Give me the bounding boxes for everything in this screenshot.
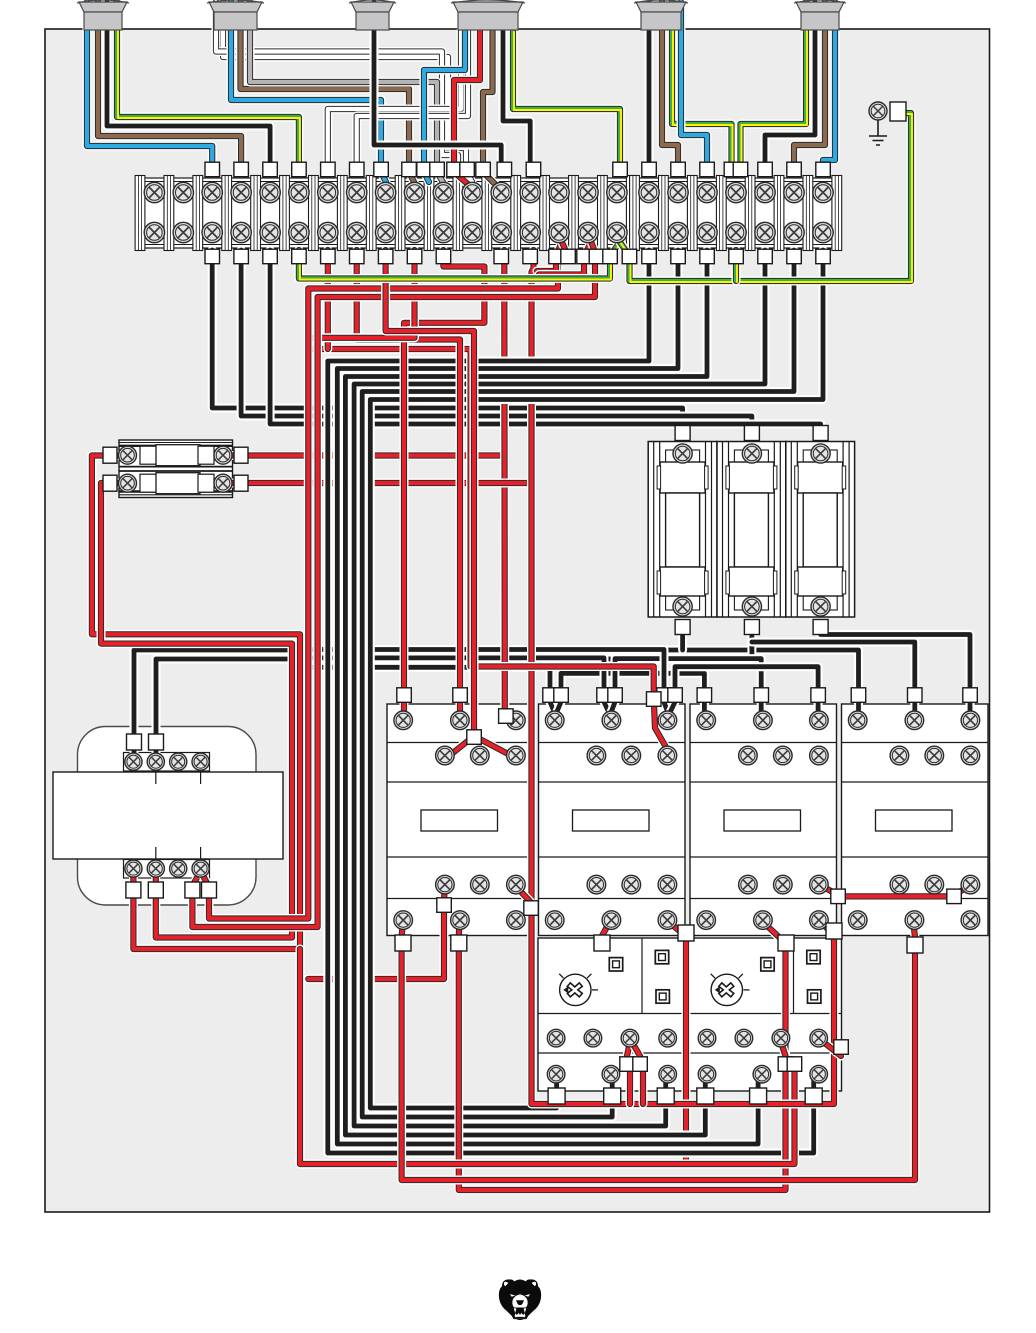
wire F1.1 out tap: [231, 451, 505, 460]
wire F2.1 drop: [678, 628, 687, 650]
wire relay F3 96b drop: [639, 1064, 648, 1104]
screw F4 95-98 row: [810, 1029, 828, 1047]
cable gland PG6: [794, 0, 846, 30]
contactor K1: [387, 704, 534, 936]
screw X1:23 lower: [784, 222, 804, 242]
wire X1:10 drop to rail: [309, 250, 415, 338]
wire trafo sec2 stub: [151, 871, 160, 886]
screw K1 row2: [507, 746, 526, 765]
screw X1:6 upper: [289, 182, 309, 202]
screw K3 top row: [697, 711, 716, 730]
ferrule T1 prim in 2: [149, 734, 164, 750]
wire cable W2 white2: [216, 2, 458, 167]
screw T1 sec: [125, 860, 142, 877]
wire K2 L2 out to K3 L2: [615, 659, 761, 713]
screw K2 bottom row: [545, 911, 564, 930]
ferrule X1 bottom: [577, 249, 592, 264]
screw X1:3 upper: [202, 182, 222, 202]
cable gland PG3: [349, 0, 396, 30]
ferrule X1:9 top: [374, 162, 389, 177]
ferrule K3 24: [826, 923, 842, 939]
ferrule F2 bottom: [675, 620, 690, 635]
wire cable W4 brown to X1:13: [483, 31, 497, 186]
ferrule X1:3 top: [205, 162, 220, 177]
wire 24V rail to relay F4 96b: [300, 949, 795, 1164]
wire cable W5 blue to X1:20: [681, 2, 707, 172]
wire X1:16 left leg: [539, 258, 584, 275]
screw X1:5 lower: [260, 222, 280, 242]
screw X1:16 lower: [578, 222, 598, 242]
screw F3 output row: [602, 1065, 620, 1083]
screw K1 bottom row: [451, 911, 470, 930]
wire cable W3 black to X1:13: [374, 2, 501, 172]
screw K1 row3: [436, 875, 455, 894]
wire K2 L3 out stub: [669, 702, 675, 715]
screw T1 prim: [170, 753, 187, 770]
ferrule X1 bottom: [378, 249, 393, 264]
wire F2.2 line to K4 L2: [752, 642, 915, 713]
wire cable W4 white2 to X1:8: [357, 31, 468, 172]
screw K3 row2: [810, 746, 829, 765]
screw K4 row2: [961, 746, 980, 765]
screw K1 row2: [471, 746, 490, 765]
wire X1:17 stub b: [620, 242, 631, 257]
screw F2 bottom: [673, 597, 692, 616]
wire cable W6 gnye to X1:21: [741, 2, 808, 173]
screw K3 top row: [754, 711, 773, 730]
wire cable W4 black to X1:14: [503, 31, 530, 172]
screw X1:7 upper: [318, 182, 338, 202]
screw T1 prim: [147, 753, 164, 770]
ferrule T1 sec 1: [126, 882, 141, 898]
screw X1:7 lower: [318, 222, 338, 242]
ferrule X1:21 top a: [724, 162, 739, 177]
screw X1:23 upper: [784, 182, 804, 202]
screw F2 bottom: [742, 597, 761, 616]
ferrule X1:18 top: [642, 162, 657, 177]
wire cable W6 brown to X1:23: [794, 2, 825, 172]
screw K3 bottom row: [697, 911, 716, 930]
screw X1:1 lower: [144, 222, 164, 242]
ferrule X1 top cluster: [526, 162, 541, 177]
screw K4 top row: [961, 711, 980, 730]
ferrule T1 prim in 1: [127, 734, 142, 750]
ferrule K3 23: [831, 889, 846, 904]
screw K1 bottom row: [507, 911, 526, 930]
fuse holder F1 (2-pole, horizontal): [119, 440, 233, 498]
ferrule X1 bottom: [407, 249, 422, 264]
ferrule K3 top: [697, 688, 712, 703]
ferrule X1:19 top: [671, 162, 686, 177]
ferrule X1 bottom: [561, 249, 576, 264]
screw K3 row3: [810, 875, 829, 894]
screw T1 sec: [147, 860, 164, 877]
wire X1:15 left leg: [537, 258, 556, 271]
ferrule X1 bottom: [234, 249, 249, 264]
screw K1 top row: [451, 711, 470, 730]
wire K1 A2 chain to relay F4: [459, 921, 786, 1190]
screw X1:6 lower: [289, 222, 309, 242]
wire cable W2 grey to X1:11: [250, 2, 444, 184]
wire cable W1 gnye to X1:6: [117, 2, 300, 173]
wire relay F3 angle b: [632, 1042, 640, 1056]
contactor K4: [842, 704, 989, 936]
overload relay F4: [690, 938, 842, 1091]
wire trafo sec4 stub a: [194, 871, 201, 884]
ferrule X1 top cluster: [417, 162, 432, 177]
wire X1:3 to fuse F2.1: [212, 250, 682, 432]
screw X1:22 upper: [755, 182, 775, 202]
ferrule F2 top: [744, 426, 759, 441]
screw K1 row2: [436, 746, 455, 765]
wire rail L1 into K2: [296, 667, 550, 700]
screw K1 top row: [507, 711, 526, 730]
screw X1:1 upper: [144, 182, 164, 202]
wire cable W1 black to X1:5: [107, 2, 270, 172]
screw K4 top row: [905, 711, 924, 730]
ferrule F2 bottom: [744, 620, 759, 635]
screw T1 sec: [192, 860, 209, 877]
screw X1:22 lower: [755, 222, 775, 242]
wire F2.1 line: transformer prim1 / K4 L1: [134, 650, 859, 757]
overload relay F3: [538, 938, 684, 1091]
ferrule X1 bottom: [292, 249, 307, 264]
screw F4 output row: [698, 1065, 716, 1083]
wire cable W2 blue to X1:9: [231, 2, 386, 182]
ferrule F1 left: [103, 475, 117, 491]
wire cable W5 brown to X1:19: [662, 2, 678, 172]
screw K4 bottom row: [961, 911, 980, 930]
screw F3 95-98 row: [621, 1029, 639, 1047]
screw X1:19 upper: [668, 182, 688, 202]
screw K3 row3: [774, 875, 793, 894]
screw X1:3 lower: [202, 222, 222, 242]
screw X1:21 upper: [726, 182, 746, 202]
wire F2.2 drop: [747, 628, 756, 659]
screw K1 row3: [507, 875, 526, 894]
screw K4 row2: [890, 746, 909, 765]
screw X1:19 lower: [668, 222, 688, 242]
wire K2 L3 in stub: [664, 702, 669, 715]
screw K4 row3: [890, 875, 909, 894]
wire cable W6 blue to X1:24: [823, 2, 835, 172]
screw K2 row3: [622, 875, 641, 894]
screw X1:10 lower: [404, 222, 424, 242]
ferrule X1 bottom: [671, 249, 686, 264]
ferrule X1 top cluster: [460, 162, 475, 177]
ferrule K4 top: [963, 688, 978, 703]
ferrule X1 bottom: [758, 249, 773, 264]
ferrule F4 out: [750, 1088, 767, 1104]
wire trafo sec4 to X1:15: [209, 252, 562, 919]
screw X1:24 lower: [813, 222, 833, 242]
ferrule K4 top: [908, 688, 923, 703]
wire rail L2 into K2: [296, 658, 604, 700]
PE earth bolt: [869, 102, 906, 145]
wire X1:19 to relay F4 T2: [337, 250, 758, 1144]
ferrule K1 L2 top: [453, 688, 468, 703]
ferrule X1 bottom: [350, 249, 365, 264]
screw F1.2 left: [119, 474, 137, 492]
wire K3 24 rail to K1 23: [532, 912, 835, 1104]
screw X1:2 upper: [173, 182, 193, 202]
wire angle into K1 L3: [505, 714, 515, 722]
ferrule F3 96 a: [620, 1057, 635, 1072]
screw K3 row2: [774, 746, 793, 765]
wire trafo sec3 to X1:16: [192, 252, 595, 927]
ferrule X1:17 top: [613, 162, 628, 177]
ferrule K2 top: [597, 688, 612, 703]
wire X1:15 stub b: [562, 242, 568, 256]
wire cable W1 blue to X1:3: [87, 2, 212, 172]
wire K2 L1 out stub: [556, 702, 562, 715]
screw F2 top: [742, 444, 761, 463]
cable gland PG2: [207, 0, 264, 30]
ferrule F4 96 a: [778, 1057, 793, 1072]
screw F3 output row: [659, 1065, 677, 1083]
screw X1:8 lower: [347, 222, 367, 242]
wire X1:16 stub a: [584, 242, 591, 256]
screw K2 top row: [545, 711, 564, 730]
screw K4 row3: [925, 875, 944, 894]
ferrule X1:21 top b: [733, 162, 748, 177]
ferrule F3 out: [604, 1088, 621, 1104]
screw X1:21 lower: [726, 222, 746, 242]
ferrule K4 top: [851, 688, 866, 703]
wire X1:24 to relay F3 T1: [370, 250, 823, 1108]
ferrule F2 top: [675, 426, 690, 441]
wire K2 A2 stub: [602, 921, 610, 948]
ferrule X1 bottom: [205, 249, 220, 264]
screw K4 bottom row: [905, 911, 924, 930]
ferrule X1 bottom: [816, 249, 831, 264]
screw K2 bottom row: [602, 911, 621, 930]
ferrule F3 out: [657, 1088, 674, 1104]
screw K2 top row: [658, 711, 677, 730]
ferrule T1 sec 3: [185, 882, 200, 898]
screw X1:24 upper: [813, 182, 833, 202]
ferrule X1:4 top: [234, 162, 249, 177]
wire K4 A2 to K1 A1 loop: [402, 921, 915, 1180]
screw K2 row3: [658, 875, 677, 894]
wire K2 L1 out to K3 L1: [561, 673, 704, 713]
screw X1:14 upper: [520, 182, 540, 202]
wire relay F3 96a drop: [626, 1064, 635, 1104]
screw K4 row2: [925, 746, 944, 765]
wire F1.1 loop to trafo sec 1: [92, 456, 300, 950]
ferrule X1 top cluster: [447, 162, 462, 177]
ferrule X1 bottom: [523, 249, 538, 264]
screw X1:2 lower: [173, 222, 193, 242]
ferrule K2 top: [543, 688, 558, 703]
wire K3 23 to K4 23 link: [838, 892, 954, 901]
screw X1:12 lower: [462, 222, 482, 242]
ferrule X1 bottom: [729, 249, 744, 264]
ferrule K2 A2 b: [678, 925, 694, 941]
ferrule relay F4 98: [834, 1040, 849, 1055]
screw K3 top row: [810, 711, 829, 730]
screw X1:15 lower: [549, 222, 569, 242]
ferrule X1 bottom: [787, 249, 802, 264]
screw F2 bottom: [811, 597, 830, 616]
wire X1:13 to K1 L3: [500, 250, 510, 716]
wire K1 aux to 24V rail: [308, 886, 445, 979]
wire cable W2 white to X1:12: [223, 2, 472, 182]
wire X1:11 to K1 L1: [404, 250, 484, 714]
wire trafo sec1 stub: [129, 871, 138, 886]
ferrule X1 bottom: [700, 249, 715, 264]
ferrule X1:24 top: [816, 162, 831, 177]
wire X1:16 stub b: [591, 242, 596, 256]
ferrule K4 A2: [907, 937, 923, 953]
wire cable W4 red to X1:12: [454, 31, 480, 186]
ferrule X1 bottom: [603, 249, 618, 264]
ferrule X1 bottom: [642, 249, 657, 264]
screw X1:9 lower: [375, 222, 395, 242]
screw K2 row2: [587, 746, 606, 765]
screw T1 prim: [192, 753, 209, 770]
screw F4 output row: [753, 1065, 771, 1083]
ferrule K2 top: [668, 688, 683, 703]
ferrule T1 sec 2: [148, 882, 163, 898]
screw K2 bottom row: [658, 911, 677, 930]
wire K2 L3 out to K3 L3: [675, 667, 818, 713]
screw K4 top row: [848, 711, 867, 730]
screw K2 row3: [587, 875, 606, 894]
ferrule X1:22 top: [758, 162, 773, 177]
ferrule K2 top: [554, 688, 569, 703]
wire X1:22 to relay F3 T3: [354, 250, 765, 1126]
ferrule K1 L1 top: [397, 688, 412, 703]
screw X1:13 upper: [491, 182, 511, 202]
wire rail L3 into K2: [296, 650, 664, 701]
screw X1:9 upper: [375, 182, 395, 202]
screw X1:4 lower: [231, 222, 251, 242]
wire earth bus X1:17 to PE bolt: [630, 113, 913, 282]
wire X1:20 to relay F4 T1: [345, 250, 707, 1135]
screw K2 row2: [622, 746, 641, 765]
ferrule X1 bottom: [622, 249, 637, 264]
screw F3 output row: [547, 1065, 565, 1083]
ferrule X1:23 top: [787, 162, 802, 177]
ferrule K2 A2 a: [594, 935, 610, 951]
ferrule X1 top cluster: [497, 162, 512, 177]
wire K2 L2 out stub: [610, 702, 615, 715]
ferrule X1 bottom: [321, 249, 336, 264]
screw K2 top row: [602, 711, 621, 730]
screw X1:17 lower: [607, 222, 627, 242]
terminal strip X1: [135, 176, 842, 251]
screw F2 top: [673, 444, 692, 463]
screw F4 output row: [810, 1065, 828, 1083]
screw X1:20 lower: [697, 222, 717, 242]
screw X1:18 lower: [639, 222, 659, 242]
wire bridge right leg: [474, 736, 512, 756]
wire K1 23 angle: [518, 888, 532, 903]
screw X1:17 upper: [607, 182, 627, 202]
screw X1:16 upper: [578, 182, 598, 202]
wire cable W4 blue to X1:11: [424, 31, 465, 182]
ferrule F4 out: [697, 1088, 714, 1104]
wire X1:7 drop: [323, 250, 332, 349]
wire K2 L2 in stub: [604, 702, 610, 715]
wire X1:18 to relay F4 T3: [328, 250, 814, 1153]
ferrule K1 A2: [451, 935, 467, 951]
ferrule F2 bottom: [813, 620, 828, 635]
ferrule F1 left: [103, 447, 117, 463]
ferrule F4 96 b: [787, 1057, 802, 1072]
screw T1 sec: [170, 860, 187, 877]
ferrule F2 top: [813, 426, 828, 441]
wire cable W4 white1 to X1:7: [328, 31, 461, 172]
screw F4 95-98 row: [735, 1029, 753, 1047]
ferrule X1 bottom: [549, 249, 564, 264]
ferrule X1 top cluster: [430, 162, 445, 177]
wire bridge left leg: [449, 736, 474, 756]
ferrule F3 out: [548, 1088, 565, 1104]
wire F1.2 loop to trafo sec 2: [101, 483, 292, 938]
wire X1:9 to K1 bridge: [386, 250, 474, 736]
wire X1:15 stub a: [556, 242, 562, 256]
screw X1:5 upper: [260, 182, 280, 202]
ferrule K1 14: [524, 901, 539, 916]
ferrule K2 top: [608, 688, 623, 703]
wire trafo sec4 stub b: [201, 871, 208, 884]
ferrule X1 bottom: [589, 249, 604, 264]
wire cable W5 gnye to X1:21: [672, 2, 733, 173]
wire X1:8 to K1 L2: [357, 250, 460, 714]
transformer T1: [53, 727, 283, 906]
wire cable W1 brown to X1:4: [98, 2, 241, 172]
ferrule K2 top: [657, 688, 672, 703]
screw X1:12 upper: [462, 182, 482, 202]
screw F1.1 left: [119, 446, 137, 464]
ferrule K3 top: [811, 688, 826, 703]
ferrule X1 bottom: [494, 249, 509, 264]
screw K3 bottom row: [754, 911, 773, 930]
wire X1:5 to fuse F2.3: [270, 250, 821, 432]
wire earth riser X1:21: [736, 250, 737, 282]
wire cable W5 black to X1:18: [645, 2, 654, 172]
screw K4 row3: [961, 875, 980, 894]
contactor K3: [690, 704, 837, 936]
ferrule K3 A2: [778, 935, 794, 951]
ferrule X1:5 top: [263, 162, 278, 177]
cable gland PG4: [451, 0, 525, 30]
screw X1:18 upper: [639, 182, 659, 202]
screw X1:13 lower: [491, 222, 511, 242]
fuse block F2 (3-pole, vertical): [648, 442, 854, 618]
screw F2 top: [811, 444, 830, 463]
screw K2 row2: [658, 746, 677, 765]
ferrule X1:8 top: [350, 162, 365, 177]
ferrule X1 bottom: [436, 249, 451, 264]
screw K4 bottom row: [848, 911, 867, 930]
wire K2 L1 in stub: [550, 702, 556, 715]
screw F1.1 right: [214, 446, 232, 464]
wire angle to relay F4 screw: [822, 1041, 841, 1056]
ferrule F4 out: [805, 1088, 822, 1104]
wire earth bus X1:6 to X1:17: [299, 250, 611, 280]
screw F4 95-98 row: [772, 1029, 790, 1047]
ferrule X1:7 top: [321, 162, 336, 177]
wire F1.2 out tap: [231, 479, 532, 488]
ferrule X1:20 top: [700, 162, 715, 177]
screw K3 row2: [739, 746, 758, 765]
wire K2 A2 drop: [667, 921, 686, 1164]
ferrule F1 right: [234, 447, 248, 463]
wire X1:17 stub a: [610, 242, 621, 257]
